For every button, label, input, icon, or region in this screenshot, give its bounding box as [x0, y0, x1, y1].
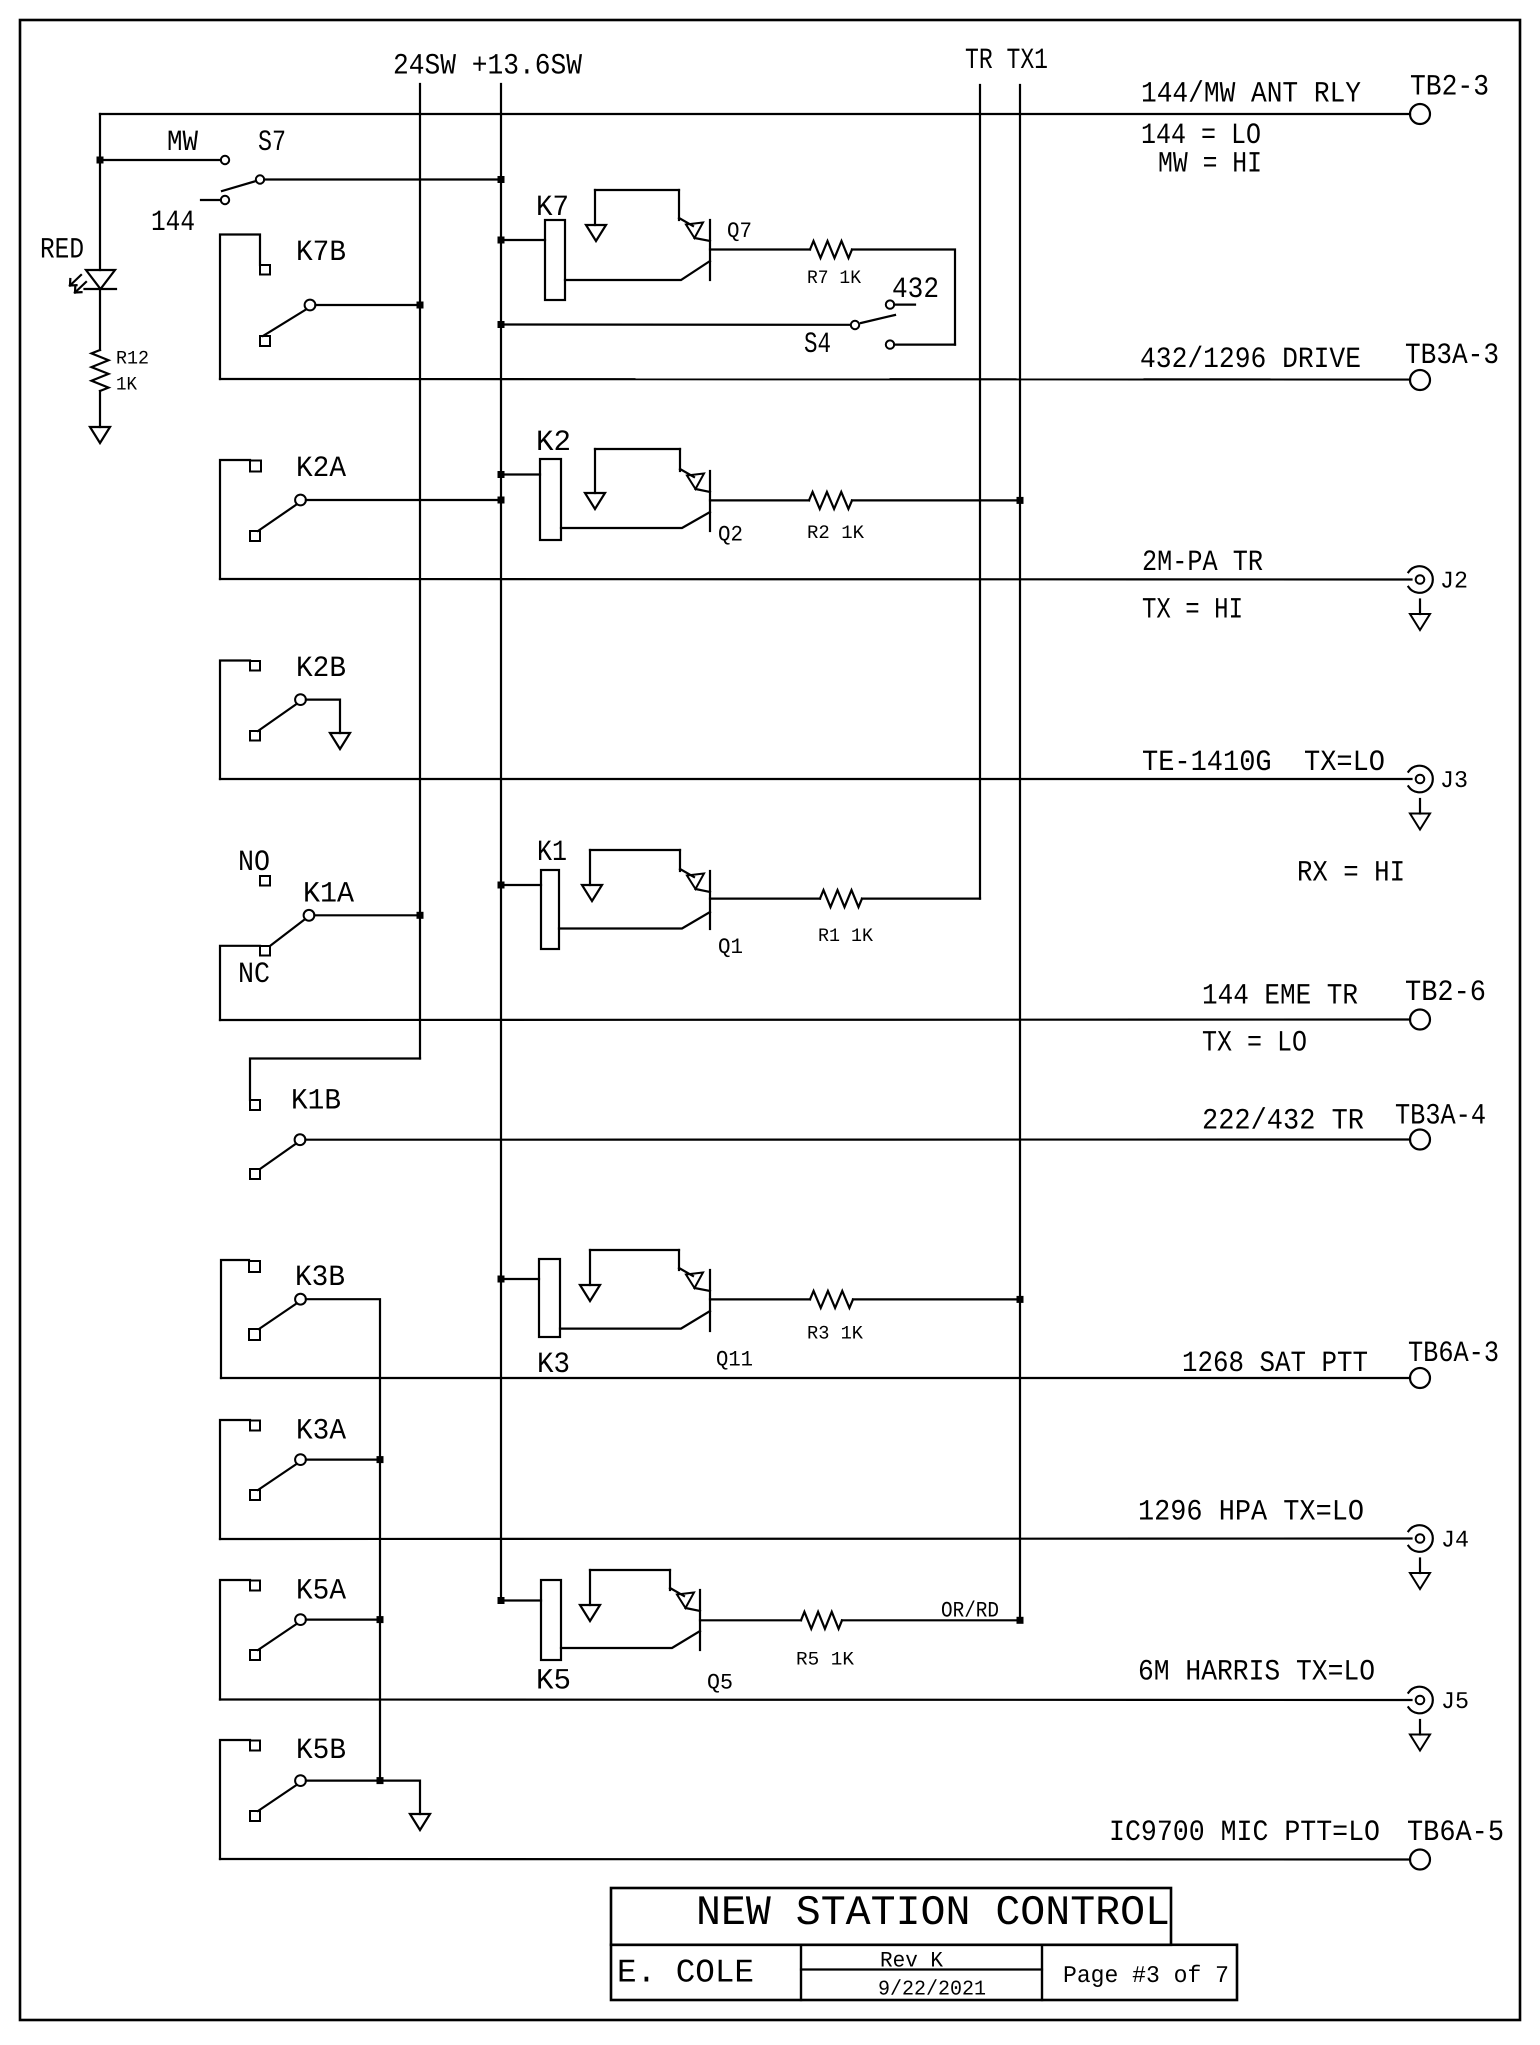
node junction: [97, 157, 104, 164]
svg-text:Rev K: Rev K: [880, 1949, 944, 1974]
wire K3B common down: [306, 1299, 380, 1459]
K1B blade: [260, 1144, 296, 1169]
svg-text:432/1296 DRIVE: 432/1296 DRIVE: [1140, 342, 1361, 376]
K7B blade: [263, 310, 306, 337]
S7 common: [256, 175, 264, 183]
wire R7 to S4: [852, 250, 955, 345]
svg-text:9/22/2021: 9/22/2021: [878, 1978, 986, 2001]
K2B NC contact: [250, 731, 260, 741]
relay contact K2A: [296, 451, 346, 485]
svg-text:TB2-6: TB2-6: [1405, 975, 1486, 1009]
transistor Q7: [727, 219, 752, 244]
svg-text:Q1: Q1: [718, 935, 743, 960]
K5A common: [295, 1614, 306, 1625]
K3B blade: [259, 1304, 297, 1330]
node junction: [377, 1777, 384, 1784]
svg-text:R12: R12: [116, 348, 149, 370]
wire 144 EME TR rail: [220, 1018, 1410, 1021]
K3B NO contact: [249, 1261, 260, 1272]
LED light arrows: [70, 275, 81, 286]
terminal TB2-3: [1410, 104, 1430, 124]
K2A NO contact: [250, 461, 261, 472]
K5B blade: [258, 1785, 297, 1811]
svg-text:TR TX1: TR TX1: [965, 43, 1048, 77]
svg-text:NC: NC: [238, 957, 270, 991]
wire TR bus: [979, 85, 981, 899]
relay coil K1: [537, 835, 567, 869]
connector J5: [1416, 1696, 1425, 1705]
K3A blade: [258, 1464, 297, 1490]
svg-text:K2B: K2B: [296, 651, 346, 685]
relay contact K5A: [296, 1573, 346, 1607]
transistor Q5: [707, 1670, 733, 1695]
K3A NC contact: [250, 1490, 260, 1500]
wire K2B common to ground: [306, 700, 340, 733]
svg-text:K5A: K5A: [296, 1573, 346, 1607]
wire: [590, 1249, 679, 1251]
resistor R5 1K: [801, 1612, 842, 1629]
K1A NC contact: [260, 946, 270, 956]
ground: [1419, 799, 1421, 814]
K3B NC contact: [249, 1329, 260, 1340]
svg-text:Q7: Q7: [727, 219, 752, 244]
transistor Q1: [718, 935, 743, 960]
wire 24SW jog to K1B: [250, 1059, 420, 1101]
svg-text:K1: K1: [537, 835, 567, 869]
svg-text:R5 1K: R5 1K: [796, 1649, 855, 1671]
K5B NO contact: [250, 1741, 260, 1751]
node junction: [1017, 1296, 1024, 1303]
wire IC9700 MIC rail: [220, 1858, 1410, 1861]
ground: [580, 1285, 600, 1301]
svg-text:RED: RED: [40, 233, 84, 267]
K7B common: [305, 300, 316, 311]
relay contact K3A: [296, 1414, 346, 1448]
node junction: [377, 1616, 384, 1623]
svg-text:IC9700 MIC PTT=LO: IC9700 MIC PTT=LO: [1109, 1815, 1380, 1849]
svg-text:J4: J4: [1441, 1528, 1469, 1555]
S7 blade: [222, 181, 256, 191]
K1B common: [295, 1134, 306, 1145]
wire K3A common to node: [306, 1458, 380, 1460]
wire K1A common to 24SW: [314, 914, 420, 916]
K3A common: [295, 1454, 306, 1465]
svg-text:K3B: K3B: [295, 1260, 345, 1294]
ground: [410, 1814, 430, 1830]
ground: [330, 733, 350, 749]
S4 blade: [861, 315, 895, 323]
node junction: [417, 912, 424, 919]
wire coil feed: [501, 1599, 541, 1601]
wire collector: [710, 897, 820, 899]
node junction: [498, 176, 505, 183]
K5A NC contact: [250, 1650, 260, 1660]
K2B common: [295, 694, 306, 705]
ground: [580, 1605, 600, 1621]
svg-text:MW = HI: MW = HI: [1158, 147, 1262, 181]
svg-text:K7B: K7B: [296, 235, 346, 269]
K7B NC contact: [260, 336, 270, 346]
wire K1A frame: [220, 946, 260, 1020]
wire 432/1296 DRIVE rail: [220, 378, 1410, 381]
svg-text:K5B: K5B: [296, 1733, 346, 1767]
wire S7 common to +13.6SW: [264, 178, 501, 180]
terminal TB6A-3: [1410, 1368, 1430, 1388]
wire LED branch vertical: [99, 114, 101, 270]
wire coil feed: [501, 473, 540, 475]
svg-text:J3: J3: [1440, 768, 1468, 795]
terminal TB2-6: [1410, 1010, 1430, 1030]
ground: [1419, 1720, 1421, 1735]
wire: [679, 449, 681, 471]
relay contact K1B: [291, 1083, 341, 1117]
K5A NO contact: [250, 1581, 260, 1591]
wire K7B common to 24SW: [315, 304, 420, 306]
wire: [595, 448, 680, 450]
K5B common: [295, 1775, 306, 1786]
S4 lower contact: [886, 340, 894, 348]
node junction: [498, 882, 505, 889]
wire 144 stub: [201, 199, 221, 201]
wire R2 to TX1 bus: [852, 499, 1020, 501]
wire MW: [100, 159, 221, 161]
transistor Q2: [718, 523, 743, 548]
wire K3A frame: [220, 1420, 250, 1539]
wire 2M-PA TR rail: [220, 578, 1412, 581]
K2A blade: [258, 505, 297, 532]
svg-text:2M-PA TR: 2M-PA TR: [1142, 545, 1263, 579]
wire collector: [700, 1619, 801, 1621]
node junction: [498, 1276, 505, 1283]
svg-text:TE-1410G TX=LO: TE-1410G TX=LO: [1142, 745, 1385, 779]
wire S4 common from +13.6SW: [501, 323, 851, 325]
wire coil feed: [501, 884, 541, 886]
wire 6M HARRIS rail: [220, 1698, 1412, 1701]
title block: [611, 1888, 1171, 1945]
wire R5 to TX1 bus: [842, 1619, 1020, 1621]
resistor R2 1K: [809, 492, 852, 509]
wire 222/432 TR rail: [305, 1138, 1410, 1140]
svg-text:24SW +13.6SW: 24SW +13.6SW: [393, 49, 582, 83]
node TR TX1: [965, 43, 1048, 77]
resistor R1 1K: [820, 890, 862, 907]
wire 24SW bus: [419, 84, 421, 1059]
terminal TB3A-3: [1410, 370, 1430, 390]
wire TX1 bus: [1019, 85, 1021, 1620]
svg-text:6M HARRIS TX=LO: 6M HARRIS TX=LO: [1138, 1655, 1375, 1689]
node junction: [1017, 1617, 1024, 1624]
K5A blade: [258, 1624, 297, 1650]
wire: [565, 261, 710, 280]
svg-text:144 EME TR: 144 EME TR: [1202, 979, 1358, 1013]
resistor R3 1K: [810, 1291, 853, 1308]
wire: [99, 391, 101, 427]
svg-text:Q11: Q11: [716, 1348, 753, 1373]
svg-text:RX = HI: RX = HI: [1297, 856, 1405, 890]
ground: [90, 427, 110, 443]
wire K7B frame: [220, 235, 260, 380]
svg-text:Q2: Q2: [718, 523, 743, 548]
K1B NC contact: [250, 1169, 260, 1179]
svg-text:J2: J2: [1440, 569, 1468, 596]
terminal TB6A-5: [1410, 1850, 1430, 1870]
svg-text:S4: S4: [804, 327, 831, 361]
svg-text:TB2-3: TB2-3: [1410, 69, 1489, 103]
wire node down: [379, 1620, 381, 1781]
wire 1296 HPA rail: [220, 1537, 1412, 1540]
ground: [582, 885, 602, 901]
relay coil K5: [536, 1663, 571, 1697]
svg-text:K1B: K1B: [291, 1083, 341, 1117]
K3B common: [295, 1294, 306, 1305]
wire: [99, 289, 101, 350]
svg-text:1268 SAT PTT: 1268 SAT PTT: [1182, 1346, 1368, 1380]
relay contact K3B: [295, 1260, 345, 1294]
node junction: [1017, 497, 1024, 504]
K7B NO contact: [260, 265, 270, 275]
wire TE-1410G rail: [220, 778, 1412, 780]
resistor R12 1K: [92, 350, 109, 391]
svg-text:144/MW ANT RLY: 144/MW ANT RLY: [1141, 77, 1361, 111]
svg-text:TB3A-4: TB3A-4: [1395, 1099, 1486, 1133]
svg-text:Page #3 of 7: Page #3 of 7: [1063, 1963, 1229, 1990]
LED RED: [40, 233, 84, 267]
K2A common: [295, 495, 306, 506]
node junction: [377, 1456, 384, 1463]
switch S4: [804, 272, 939, 361]
wire K5A frame: [220, 1580, 250, 1700]
ground: [586, 225, 606, 241]
K1A blade: [270, 920, 305, 947]
svg-text:K2: K2: [536, 425, 571, 459]
wire K3B frame: [221, 1260, 249, 1378]
wire coil feed: [501, 1278, 539, 1280]
wire 144/MW ANT RLY rail: [100, 113, 1410, 115]
svg-text:TX = LO: TX = LO: [1202, 1026, 1307, 1060]
svg-text:S7: S7: [258, 125, 286, 159]
svg-text:K5: K5: [536, 1663, 571, 1697]
relay coil K2: [536, 425, 571, 459]
wire: [679, 850, 681, 871]
K1A NO contact: [260, 876, 270, 886]
svg-text:K3: K3: [537, 1347, 570, 1381]
connector J2: [1416, 575, 1425, 584]
node junction: [498, 321, 505, 328]
node junction: [498, 497, 505, 504]
svg-text:K3A: K3A: [296, 1414, 346, 1448]
svg-text:R1 1K: R1 1K: [818, 925, 874, 947]
wire 1268 SAT PTT rail: [221, 1377, 1410, 1379]
K1A common: [304, 910, 315, 921]
wire R3 to TX1 bus: [853, 1298, 1020, 1300]
wire node down: [379, 1460, 381, 1620]
K3A NO contact: [250, 1421, 260, 1431]
wire K2A frame: [220, 460, 250, 579]
svg-text:222/432 TR: 222/432 TR: [1202, 1103, 1364, 1137]
node junction: [417, 302, 424, 309]
relay coil K7: [536, 190, 569, 224]
wire +13.6SW bus: [500, 84, 502, 1601]
K2A NC contact: [250, 531, 260, 541]
wire: [669, 1570, 671, 1590]
relay contact K7B: [296, 235, 346, 269]
wire K2A common to +13.6SW: [306, 499, 501, 501]
wire collector: [710, 1298, 810, 1300]
wire: [595, 189, 679, 191]
wire K5A common to node: [306, 1618, 380, 1620]
switch S7: [151, 125, 286, 239]
wire: [678, 190, 680, 220]
relay contact K1A: [238, 845, 354, 991]
wire K5B frame: [220, 1740, 250, 1859]
svg-text:J5: J5: [1441, 1689, 1469, 1716]
wire collector: [710, 248, 810, 250]
wire: [590, 1569, 670, 1571]
svg-text:NO: NO: [238, 845, 270, 879]
transistor Q11: [716, 1348, 753, 1373]
terminal TB3A-4: [1410, 1130, 1430, 1150]
svg-text:K2A: K2A: [296, 451, 346, 485]
wire: [678, 1250, 680, 1270]
K1B NO contact: [250, 1100, 260, 1110]
resistor R7 1K: [810, 241, 852, 258]
ground: [585, 493, 605, 509]
svg-text:432: 432: [892, 272, 939, 306]
svg-text:1296 HPA TX=LO: 1296 HPA TX=LO: [1138, 1495, 1364, 1529]
svg-text:NEW STATION CONTROL: NEW STATION CONTROL: [696, 1889, 1170, 1937]
wire R1 to TR bus: [862, 897, 980, 899]
relay contact K2B: [296, 651, 346, 685]
svg-text:TB6A-5: TB6A-5: [1407, 1815, 1504, 1849]
wire: [590, 849, 680, 851]
wire coil feed: [501, 239, 545, 241]
svg-text:TX = HI: TX = HI: [1142, 593, 1243, 627]
svg-text:K1A: K1A: [303, 877, 354, 911]
wire: [560, 1311, 710, 1329]
svg-text:K7: K7: [536, 190, 569, 224]
ground: [1419, 1559, 1421, 1574]
node junction: [498, 1597, 505, 1604]
wire: [561, 1631, 700, 1648]
relay coil K3: [537, 1347, 570, 1381]
K2B blade: [258, 704, 297, 731]
svg-text:Q5: Q5: [707, 1670, 733, 1695]
svg-text:R2 1K: R2 1K: [807, 522, 865, 544]
svg-text:R7 1K: R7 1K: [807, 267, 862, 289]
svg-text:1K: 1K: [116, 374, 138, 396]
wire: [559, 912, 710, 929]
wire K5B common to ground: [306, 1781, 420, 1814]
connector J3: [1416, 775, 1425, 784]
relay contact K5B: [296, 1733, 346, 1767]
svg-text:MW: MW: [167, 125, 198, 159]
node 24SW +13.6SW: [393, 49, 582, 83]
node junction: [498, 237, 505, 244]
K5B NC contact: [250, 1811, 260, 1821]
svg-text:E. COLE: E. COLE: [617, 1955, 754, 1992]
svg-text:TB6A-3: TB6A-3: [1408, 1336, 1499, 1370]
wire collector: [710, 499, 809, 501]
svg-text:144: 144: [151, 205, 195, 239]
ground: [1419, 600, 1421, 615]
connector J4: [1416, 1534, 1425, 1543]
wire K2B frame: [220, 661, 250, 780]
node junction: [498, 471, 505, 478]
K2B NO contact: [250, 661, 260, 671]
S4 432 contact: [886, 300, 894, 308]
svg-text:TB3A-3: TB3A-3: [1405, 338, 1499, 372]
wire: [561, 512, 710, 528]
svg-text:R3 1K: R3 1K: [807, 1323, 864, 1345]
